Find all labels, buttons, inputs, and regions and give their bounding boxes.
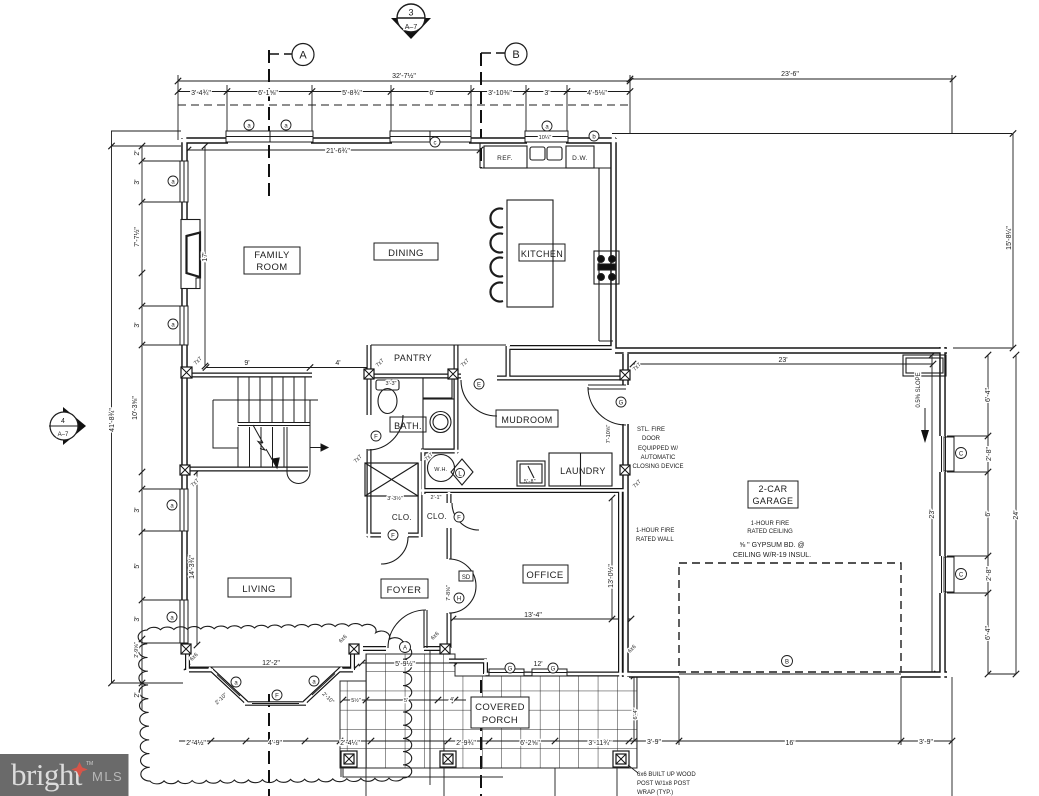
range / cooktop: [594, 251, 619, 284]
svg-text:2': 2': [134, 150, 141, 155]
laundry sink: [517, 461, 545, 486]
garage notes: [632, 427, 811, 559]
svg-text:13'-0½": 13'-0½": [607, 564, 615, 588]
svg-text:3': 3': [134, 179, 141, 184]
pantry top edge: [371, 344, 506, 346]
svg-text:4: 4: [61, 418, 65, 425]
svg-text:21'-6¾": 21'-6¾": [326, 148, 350, 155]
svg-text:4'-9": 4'-9": [268, 740, 282, 747]
svg-text:RATED WALL: RATED WALL: [636, 537, 674, 543]
svg-text:2'-8": 2'-8": [986, 447, 993, 461]
svg-text:⅝ " GYPSUM BD. @: ⅝ " GYPSUM BD. @: [739, 542, 804, 549]
ticks: [108, 76, 1019, 744]
top dim line overall: [178, 79, 953, 81]
svg-text:CLO.: CLO.: [392, 513, 412, 522]
kitchen bottom wall + jog: [508, 346, 613, 378]
pantry right / bath right: [454, 345, 459, 453]
svg-text:W.H.: W.H.: [434, 467, 448, 473]
svg-text:SD: SD: [462, 575, 471, 581]
svg-text:2'-9⅝": 2'-9⅝": [134, 642, 140, 658]
svg-text:F: F: [391, 534, 395, 540]
CLO bottoms: [367, 533, 420, 538]
svg-text:MUDROOM: MUDROOM: [501, 415, 552, 425]
top dim line segments: [178, 91, 630, 93]
bottom extension verticals: [366, 648, 952, 796]
svg-text:3'-4¾": 3'-4¾": [191, 90, 211, 97]
grid line B: [480, 53, 482, 796]
svg-text:24': 24': [1013, 510, 1020, 519]
left wall: [181, 138, 188, 648]
svg-text:9': 9': [244, 360, 249, 367]
garage top eave line: [612, 133, 1012, 135]
svg-text:FAMILY: FAMILY: [254, 250, 290, 261]
svg-text:COVERED: COVERED: [475, 702, 525, 713]
pantry left/bath left vertical: [367, 345, 372, 537]
rotated dims: [109, 150, 1020, 719]
21'-6.75: [188, 149, 480, 151]
bar stools: [490, 209, 503, 302]
svg-text:F: F: [275, 694, 279, 700]
garage interior 23: [633, 363, 933, 365]
CLO left door F: [381, 537, 408, 564]
svg-text:6': 6': [985, 511, 992, 516]
svg-text:1-HOUR FIRE: 1-HOUR FIRE: [751, 521, 789, 527]
svg-text:C: C: [959, 573, 964, 579]
svg-text:GARAGE: GARAGE: [753, 496, 794, 506]
svg-text:7'-10⅝": 7'-10⅝": [606, 425, 612, 444]
left far chain: [111, 131, 183, 683]
WH nook left: [421, 451, 426, 494]
svg-text:6'-2⅝": 6'-2⅝": [520, 740, 540, 747]
svg-text:3': 3': [134, 507, 141, 512]
svg-text:3'-3½": 3'-3½": [387, 495, 403, 502]
CLO divider: [418, 463, 423, 537]
svg-text:5': 5': [134, 563, 141, 568]
svg-text:LAUNDRY: LAUNDRY: [560, 466, 606, 476]
svg-text:6': 6': [429, 90, 434, 97]
garage fire door G: [588, 385, 626, 425]
svg-text:G: G: [508, 667, 513, 673]
under-stair X box: [365, 463, 418, 496]
bottom dim row: [179, 740, 952, 742]
svg-text:15'-8¼": 15'-8¼": [1006, 226, 1013, 250]
roof overhang dashed: [178, 104, 628, 106]
svg-text:A–7: A–7: [405, 24, 418, 31]
left wall windows (glazing): [180, 161, 188, 643]
bay diagonal windows: [217, 674, 335, 704]
svg-text:BATH.: BATH.: [394, 421, 422, 431]
svg-text:TM: TM: [86, 761, 93, 767]
svg-text:10'-3⅝": 10'-3⅝": [132, 396, 139, 420]
svg-text:6'-4": 6'-4": [985, 388, 992, 402]
svg-text:4'-5⅛": 4'-5⅛": [587, 90, 607, 97]
svg-text:16': 16': [785, 740, 794, 747]
svg-text:2'-4½": 2'-4½": [186, 739, 206, 747]
svg-text:AUTOMATIC: AUTOMATIC: [641, 455, 676, 461]
garage door sill: [679, 673, 901, 675]
bath toilet: [376, 380, 399, 390]
svg-text:10¼": 10¼": [539, 135, 552, 141]
pantry bottom / mudroom top: [367, 376, 629, 378]
garage walls: [615, 347, 947, 677]
svg-text:3: 3: [408, 8, 413, 18]
svg-text:2'-9¾": 2'-9¾": [456, 740, 476, 747]
kitchen right counter: [599, 168, 613, 341]
grid bubbles: [292, 43, 527, 66]
CLO right door F: [452, 503, 479, 530]
bay dims: [187, 666, 356, 668]
porch small dims: [343, 663, 634, 741]
porch heavy posts: [341, 751, 629, 767]
svg-text:STL. FIRE: STL. FIRE: [637, 427, 665, 433]
svg-text:12': 12': [533, 661, 542, 668]
office double door H: [449, 559, 476, 613]
svg-text:7'-7½": 7'-7½": [133, 227, 141, 247]
svg-text:OFFICE: OFFICE: [526, 570, 563, 581]
svg-text:3'-3": 3'-3": [386, 381, 397, 387]
7x7 6x6 labels: [189, 356, 643, 663]
svg-text:23': 23': [929, 509, 936, 518]
svg-text:23'-6": 23'-6": [781, 71, 799, 78]
svg-text:2'-4¼": 2'-4¼": [340, 740, 360, 747]
svg-text:3': 3': [134, 616, 141, 621]
svg-text:2': 2': [134, 692, 141, 697]
bath bottom: [421, 449, 458, 454]
svg-text:41'-8¾": 41'-8¾": [109, 408, 116, 432]
svg-text:EQUIPPED W/: EQUIPPED W/: [638, 446, 678, 452]
bay window walls: [188, 653, 354, 670]
svg-text:3'-9": 3'-9": [647, 739, 661, 746]
svg-text:2'-8": 2'-8": [986, 567, 993, 581]
svg-text:6'-1⅝": 6'-1⅝": [258, 90, 278, 97]
svg-text:23': 23': [778, 357, 787, 364]
svg-text:H: H: [457, 597, 461, 603]
svg-text:PORCH: PORCH: [482, 715, 518, 726]
left inner chain: [141, 146, 143, 710]
svg-text:5'-8¾": 5'-8¾": [342, 90, 362, 97]
svg-text:A: A: [299, 50, 307, 62]
svg-text:CLOSING DEVICE: CLOSING DEVICE: [632, 464, 683, 470]
extension verticals top: [178, 75, 952, 140]
svg-text:7'-8⅜": 7'-8⅜": [446, 585, 452, 601]
stairwell top wall: [182, 373, 312, 378]
svg-text:A–7: A–7: [58, 432, 69, 438]
svg-text:CEILING W/R-19 INSUL.: CEILING W/R-19 INSUL.: [733, 552, 811, 559]
svg-text:3': 3': [134, 322, 141, 327]
svg-text:5': 5': [404, 698, 408, 704]
kitchen-mudroom E door: [461, 380, 497, 416]
svg-text:5'-9½": 5'-9½": [395, 660, 415, 668]
slope arrow: [924, 408, 926, 432]
svg-text:DOOR: DOOR: [642, 436, 661, 442]
top wall windows: [226, 131, 568, 142]
svg-text:B: B: [512, 49, 519, 61]
svg-text:2'-1": 2'-1": [431, 495, 442, 501]
bath door: [368, 415, 403, 450]
svg-text:5'-8": 5'-8": [524, 479, 536, 485]
office front walls: [449, 661, 630, 674]
svg-text:13'-4": 13'-4": [524, 612, 542, 619]
svg-text:3': 3': [544, 90, 549, 97]
front wall: [363, 646, 450, 651]
laundry washer/dryer: [549, 453, 612, 486]
front door A: [388, 610, 427, 648]
bay diagonals and bottom: [210, 669, 341, 704]
svg-text:RATED CEILING: RATED CEILING: [747, 529, 793, 535]
svg-text:2-CAR: 2-CAR: [758, 484, 787, 494]
refrigerator: [566, 146, 594, 168]
svg-text:5½": 5½": [351, 697, 361, 704]
svg-text:32'-7½": 32'-7½": [392, 72, 416, 80]
svg-text:17': 17': [202, 252, 209, 261]
thin single line bits: [371, 345, 901, 674]
svg-text:REF.: REF.: [497, 155, 513, 162]
svg-text:C: C: [959, 452, 964, 458]
svg-text:6x6 BUILT UP WOOD: 6x6 BUILT UP WOOD: [637, 772, 696, 778]
office right wall: [618, 493, 623, 676]
svg-text:1-HOUR FIRE: 1-HOUR FIRE: [636, 528, 674, 534]
garage NE box: [903, 355, 946, 376]
svg-text:0.5% SLOPE: 0.5% SLOPE: [916, 372, 922, 407]
svg-text:G: G: [619, 401, 624, 407]
svg-text:4': 4': [450, 697, 454, 703]
garage right windows: [939, 436, 946, 472]
kitchen right wall: [610, 138, 617, 348]
SD box: [459, 571, 473, 581]
svg-text:DINING: DINING: [388, 248, 424, 259]
kitchen island: [507, 200, 553, 307]
svg-text:PANTRY: PANTRY: [394, 353, 432, 363]
svg-text:LIVING: LIVING: [242, 584, 276, 595]
svg-text:FOYER: FOYER: [387, 585, 422, 596]
svg-text:E: E: [477, 383, 481, 389]
svg-text:WRAP (TYP.): WRAP (TYP.): [637, 790, 673, 796]
garage door dashed: [679, 563, 901, 672]
svg-text:B: B: [785, 660, 789, 666]
17' and 14'-3.75 interior verticals: [197, 146, 205, 645]
foyer right wall: [447, 494, 452, 648]
svg-text:3'-10⅜": 3'-10⅜": [488, 90, 512, 97]
svg-text:4': 4': [335, 360, 340, 367]
svg-text:G: G: [551, 667, 556, 673]
vanity + sink: [423, 378, 452, 398]
svg-text:3'-9": 3'-9": [919, 739, 933, 746]
svg-text:6'-4": 6'-4": [985, 626, 992, 640]
svg-text:12'-2": 12'-2": [262, 660, 280, 667]
svg-text:MLS: MLS: [92, 769, 123, 784]
office top wall: [421, 488, 623, 493]
svg-text:6'-4": 6'-4": [633, 708, 639, 719]
svg-text:bright: bright: [11, 757, 83, 792]
kitchen top counter: [480, 143, 611, 168]
right dims: [932, 134, 1016, 675]
grid line A: [269, 50, 481, 796]
svg-text:14'-3¾": 14'-3¾": [189, 555, 196, 579]
svg-text:KITCHEN: KITCHEN: [521, 249, 563, 259]
svg-text:A: A: [403, 646, 407, 652]
water heater W.H.: [428, 455, 455, 482]
svg-text:D.W.: D.W.: [572, 155, 588, 162]
svg-text:CLO.: CLO.: [427, 512, 447, 521]
svg-text:F: F: [457, 516, 461, 522]
office dims: [453, 498, 631, 619]
stair dim: [206, 367, 367, 369]
office front windows: [489, 669, 524, 676]
top wall: [183, 137, 616, 144]
kitchen double sink: [530, 147, 545, 160]
svg-text:ROOM: ROOM: [256, 262, 287, 273]
svg-text:3'-11¾": 3'-11¾": [588, 740, 612, 747]
svg-text:F: F: [374, 435, 378, 441]
svg-text:POST W/1x8 POST: POST W/1x8 POST: [637, 781, 690, 787]
svg-text:c: c: [434, 141, 437, 147]
stairs bottom wall: [182, 467, 308, 472]
